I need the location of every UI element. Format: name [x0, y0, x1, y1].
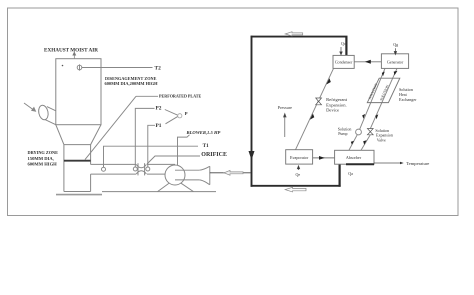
- svg-text:Qa: Qa: [348, 171, 353, 176]
- inlet air arrow: [24, 103, 36, 111]
- solution heat exchanger body: [367, 78, 400, 102]
- duct loop left line: [251, 36, 253, 187]
- perforated plate leader diagonal: [85, 96, 136, 159]
- pump line arrow near generator: [382, 72, 385, 77]
- solid down arrow on loop left line: [249, 151, 255, 160]
- Qg arrow: [394, 48, 396, 54]
- T1 port circle: [102, 164, 106, 171]
- duct riser to absorber: [339, 164, 341, 187]
- pump line lower arrow: [351, 141, 354, 145]
- P2 tap circle: [133, 167, 137, 171]
- BLOWER leader: [178, 135, 190, 165]
- pressure gauge circle P: [178, 114, 182, 118]
- perforated plate leader horizontal: [136, 95, 158, 97]
- drying column right edge upper: [90, 145, 92, 165]
- pressure axis arrow: [284, 114, 287, 138]
- temperature axis arrowhead: [400, 162, 404, 165]
- blower right leg: [181, 183, 194, 191]
- absorber box: [335, 150, 374, 164]
- duct loop top line: [251, 36, 348, 38]
- drying column right edge lower: [90, 174, 92, 191]
- duct loop bottom line: [251, 185, 341, 187]
- refrigerant arrow lower: [310, 114, 315, 120]
- pipe from bell to duct loop: [210, 172, 251, 174]
- duct drop to condenser: [345, 37, 347, 56]
- svg-text:T1: T1: [203, 143, 209, 149]
- svg-text:Exchanger: Exchanger: [399, 97, 417, 102]
- nozzle dot: [62, 65, 64, 67]
- solution pump line upper (to generator): [360, 68, 385, 129]
- svg-text:ORIFICE: ORIFICE: [201, 152, 227, 158]
- cone right slant: [91, 125, 101, 145]
- Qc arrow: [340, 47, 342, 55]
- evaporator box: [286, 150, 313, 164]
- svg-text:Temperature: Temperature: [406, 161, 429, 166]
- T1 leader: [104, 146, 199, 167]
- svg-text:Qg: Qg: [393, 42, 398, 47]
- duct top line: [91, 163, 136, 165]
- inlet pipe ellipse: [37, 104, 49, 120]
- svg-text:Valve: Valve: [377, 137, 386, 142]
- blower left leg: [158, 183, 170, 191]
- arrowhead to absorber: [319, 156, 325, 160]
- svg-text:PERFORATED PLATE: PERFORATED PLATE: [159, 94, 202, 99]
- svg-text:P: P: [185, 111, 188, 116]
- svg-text:Condenser: Condenser: [335, 60, 353, 65]
- inlet pipe bottom line: [45, 120, 56, 125]
- drawing border frame: [8, 8, 459, 216]
- drying column bottom: [64, 191, 91, 193]
- P2 leader: [135, 108, 154, 167]
- diffuser bell bottom: [199, 180, 210, 185]
- perforated plate: [64, 160, 91, 162]
- valve line arrow below SHX: [375, 114, 378, 119]
- blower circle: [165, 165, 185, 185]
- P1 tap circle: [146, 167, 150, 171]
- svg-text:Evaporator: Evaporator: [290, 155, 309, 160]
- hollow flow arrow top: [285, 32, 303, 36]
- blower outlet duct top: [175, 169, 199, 171]
- leader line to T2: [82, 67, 153, 69]
- generator to condenser line: [354, 61, 381, 63]
- solution expansion valve line (generator to valve): [370, 68, 397, 128]
- gauge diagonal from P2: [165, 110, 178, 116]
- svg-text:Refrigerant: Refrigerant: [326, 97, 348, 102]
- refrigerant arrow upper: [326, 78, 331, 84]
- svg-text:P1: P1: [156, 123, 162, 129]
- svg-text:600MM DIA,200MM HIGH: 600MM DIA,200MM HIGH: [105, 81, 159, 86]
- svg-text:150MM DIA,: 150MM DIA,: [28, 156, 54, 161]
- small hollow flow arrow on pipe: [224, 170, 243, 175]
- diffuser bell top: [199, 166, 210, 170]
- evaporator to absorber line: [313, 157, 335, 159]
- diffuser bell mouth: [209, 166, 211, 184]
- gauge diagonal from P1: [166, 116, 179, 124]
- duct top line after orifice: [147, 163, 175, 165]
- disengagement chamber box: [56, 59, 101, 125]
- ORIFICE leader: [147, 156, 200, 164]
- temperature sensor T2 circle: [77, 64, 82, 70]
- arrowhead to condenser: [365, 60, 371, 64]
- blower outlet duct bottom: [175, 179, 199, 181]
- svg-text:DRYING ZONE: DRYING ZONE: [28, 150, 59, 155]
- solution pump circle: [356, 129, 362, 135]
- svg-text:Qc: Qc: [341, 41, 346, 46]
- inlet pipe top line: [47, 107, 56, 111]
- refrigerant line condenser to evaporator: [296, 68, 334, 149]
- svg-text:Pump: Pump: [338, 131, 347, 136]
- svg-text:Qe: Qe: [296, 172, 301, 177]
- valve line arrow near generator: [394, 71, 398, 75]
- duct bottom line: [91, 173, 136, 175]
- duct bottom line after orifice: [147, 173, 166, 175]
- svg-text:Pressure: Pressure: [278, 105, 292, 110]
- pump line arrow below SHX: [362, 114, 365, 119]
- cone/column junction line: [64, 144, 91, 146]
- orifice constriction bottom: [136, 171, 146, 174]
- svg-text:T2: T2: [155, 65, 162, 71]
- valve line to absorber: [361, 135, 370, 150]
- temperature axis line: [374, 162, 401, 164]
- svg-text:Device: Device: [326, 108, 339, 113]
- svg-text:Generator: Generator: [387, 59, 404, 64]
- drying column left edge: [63, 145, 65, 192]
- solution expansion valve symbol: [367, 129, 373, 135]
- column base plate: [56, 194, 102, 196]
- Qe arrow: [297, 166, 299, 170]
- svg-text:600MM HIGH: 600MM HIGH: [28, 162, 58, 167]
- exhaust stub arrow: [73, 52, 76, 59]
- svg-text:Absorber: Absorber: [346, 155, 362, 160]
- orifice constriction top: [136, 164, 146, 167]
- generator box: [381, 54, 408, 69]
- svg-text:P2: P2: [156, 105, 162, 111]
- hollow flow arrow bottom: [285, 187, 306, 192]
- solution pump line lower: [349, 135, 357, 150]
- cone left slant: [56, 125, 64, 145]
- refrigerant expansion device valve: [316, 98, 322, 105]
- svg-text:EXHAUST MOIST AIR: EXHAUST MOIST AIR: [44, 47, 98, 53]
- condenser box: [333, 55, 354, 68]
- P1 leader: [148, 125, 155, 167]
- svg-text:BLOWER,1.5 HP: BLOWER,1.5 HP: [186, 130, 221, 135]
- orifice flange bar 1: [137, 163, 139, 175]
- orifice flange bar 2: [144, 163, 146, 175]
- absorber bottom thick bar: [346, 163, 374, 165]
- ground line: [102, 191, 216, 193]
- valve-absorber arrow: [363, 140, 366, 145]
